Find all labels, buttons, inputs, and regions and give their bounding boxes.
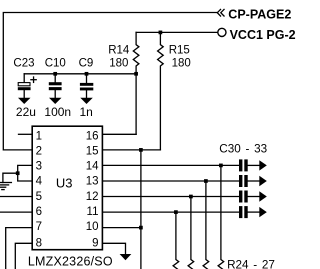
- wire pin13 row: [102, 180, 239, 182]
- junction dot R15 top: [159, 31, 163, 35]
- wire C32 output row3: [248, 196, 260, 198]
- IC U3 box: [32, 126, 102, 250]
- wire pin4 stub: [18, 173, 33, 181]
- svg-text:C9: C9: [79, 58, 94, 70]
- resistor R14: [133, 32, 139, 134]
- svg-text:6: 6: [36, 206, 42, 218]
- svg-text:8: 8: [36, 237, 42, 249]
- pin CP-PAGE2 chevron terminal: [217, 9, 224, 17]
- wire pin3 stub: [18, 165, 33, 173]
- svg-text:15: 15: [86, 146, 99, 158]
- arrow output row4: [259, 207, 267, 217]
- capacitor C32 plates: [239, 191, 242, 203]
- junction dot row1: [219, 164, 223, 168]
- capacitor C9 bottom plate: [80, 88, 93, 91]
- wire pin6: [0, 211, 32, 213]
- svg-text:C10: C10: [45, 58, 66, 70]
- wire VCC1 horizontal: [136, 31, 218, 33]
- capacitor C23 plus sign: [31, 79, 36, 81]
- svg-text:13: 13: [86, 176, 99, 188]
- resistor R24 drop from row4: [173, 212, 179, 269]
- svg-text:180: 180: [109, 57, 128, 69]
- pin9 ground arrow: [120, 254, 132, 260]
- wire pin5: [0, 196, 32, 198]
- capacitor C10 ground arrow: [49, 98, 62, 104]
- capacitor C33 plates: [239, 206, 242, 218]
- svg-text:VCC1 PG-2: VCC1 PG-2: [230, 28, 296, 42]
- svg-text:9: 9: [92, 237, 98, 249]
- resistor R27 drop from row1: [218, 165, 224, 269]
- capacitor C9 leads: [86, 74, 88, 83]
- resistor R15: [158, 32, 164, 149]
- svg-text:C30 - 33: C30 - 33: [219, 143, 267, 156]
- wire C30 output row1: [248, 164, 260, 166]
- junction dot row4: [174, 210, 178, 214]
- capacitor C10 top plate: [49, 82, 62, 85]
- wire pin15 to pin10 vertical: [140, 150, 142, 269]
- wire pin7: [6, 228, 33, 269]
- svg-text:16: 16: [86, 131, 99, 143]
- wire pin11 row: [102, 211, 239, 213]
- capacitor C23 top plate (polarized outline): [18, 83, 30, 86]
- svg-text:C23: C23: [13, 58, 34, 70]
- svg-text:22u: 22u: [16, 105, 36, 119]
- wire pin14 row: [102, 164, 239, 166]
- junction dot pin3/4 ground: [16, 171, 20, 175]
- wire CP-PAGE2 top horizontal: [3, 13, 217, 150]
- capacitor C9 ground arrow: [80, 98, 93, 104]
- wire capacitor bus: [24, 73, 136, 75]
- wire pin10 stub: [102, 227, 140, 229]
- arrow output row3: [259, 191, 267, 201]
- svg-text:1n: 1n: [80, 105, 93, 119]
- junction dot row2: [204, 179, 208, 183]
- svg-text:14: 14: [86, 161, 99, 173]
- wire pin8: [15, 243, 32, 269]
- capacitor C10 leads: [54, 74, 56, 82]
- capacitor C9 top plate: [80, 83, 93, 86]
- svg-text:5: 5: [36, 191, 42, 203]
- svg-text:11: 11: [87, 206, 99, 218]
- junction dot C9: [85, 72, 89, 76]
- arrow output row2: [259, 176, 267, 186]
- svg-text:U3: U3: [56, 176, 73, 191]
- junction dot R14 bottom: [134, 72, 138, 76]
- wire pin15 stub: [102, 149, 160, 151]
- arrow output row1: [259, 160, 267, 170]
- svg-text:R24 - 27: R24 - 27: [227, 259, 275, 269]
- svg-text:R14: R14: [108, 45, 130, 57]
- wire C31 output row2: [248, 180, 260, 182]
- svg-text:4: 4: [36, 176, 43, 188]
- svg-text:100n: 100n: [44, 105, 71, 119]
- wire C33 output row4: [248, 211, 260, 213]
- wire pin1 stub: [19, 133, 33, 135]
- junction dot pin10: [139, 226, 143, 230]
- capacitor C23 bottom plate: [18, 87, 31, 90]
- capacitor C23 ground arrow: [18, 98, 31, 104]
- svg-text:R15: R15: [169, 45, 190, 57]
- svg-text:CP-PAGE2: CP-PAGE2: [228, 8, 291, 22]
- svg-text:2: 2: [36, 146, 42, 158]
- svg-text:7: 7: [36, 221, 42, 233]
- junction dot pin15: [139, 148, 143, 152]
- pin VCC1 circle terminal: [218, 28, 226, 36]
- capacitor C23 leads: [23, 74, 25, 83]
- resistor R26 drop from row2: [203, 181, 209, 269]
- capacitor C30 plates: [239, 159, 242, 171]
- svg-text:10: 10: [86, 221, 99, 233]
- ground symbol: [0, 182, 11, 184]
- wire pin16 stub: [102, 133, 136, 135]
- capacitor C31 plates: [239, 175, 242, 187]
- svg-text:180: 180: [172, 57, 191, 69]
- capacitor C10 bottom plate: [49, 87, 62, 90]
- junction dot C10: [53, 72, 57, 76]
- svg-text:12: 12: [86, 191, 99, 203]
- wire pin3/4 to ground: [3, 173, 18, 182]
- svg-text:3: 3: [36, 161, 42, 173]
- junction dot row3: [189, 195, 193, 199]
- svg-text:1: 1: [36, 131, 42, 143]
- resistor R25 drop from row3: [188, 197, 194, 269]
- wire pin9 to arrow: [102, 243, 125, 254]
- wire pin12 row: [102, 196, 239, 198]
- svg-text:LMZX2326/SO: LMZX2326/SO: [28, 254, 113, 268]
